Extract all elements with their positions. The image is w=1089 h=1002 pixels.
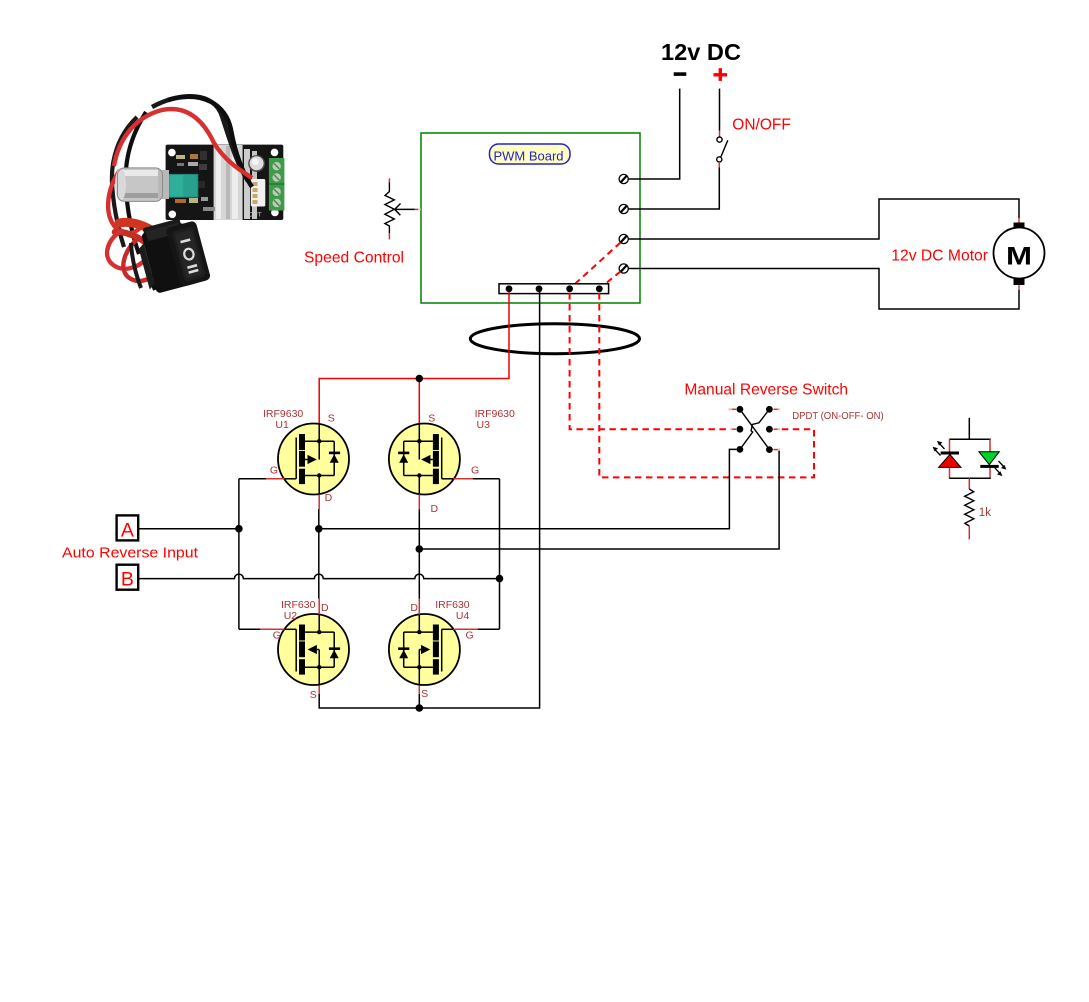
svg-text:A: A [121,519,134,541]
red dashed wire terminal3 to connector pin3 [571,243,621,289]
svg-text:S: S [310,689,317,701]
svg-text:U1: U1 [275,419,289,431]
SMD components on PCB [175,151,262,219]
svg-text:12v DC: 12v DC [661,39,741,65]
connector strip on PWM board [499,284,609,294]
transistor U1 IRF9630 [266,424,349,510]
svg-text:M: M [1006,243,1032,271]
rocker switch [134,214,211,295]
transistor U4 IRF630 [389,599,479,686]
labels U3 [428,408,515,515]
svg-text:ON/OFF: ON/OFF [732,117,791,134]
white 4-pin connector [251,179,265,207]
svg-text:Manual Reverse Switch: Manual Reverse Switch [684,381,848,398]
terminal circle 2 [619,204,628,213]
svg-text:D: D [410,602,418,614]
black hookup wires over board [112,96,252,254]
labels U1 [263,408,335,504]
svg-text:U4: U4 [456,610,470,622]
svg-text:D: D [431,503,439,515]
svg-text:DPDT (ON-OFF- ON): DPDT (ON-OFF- ON) [792,411,884,422]
LED D2 green [979,452,1007,476]
svg-text:G: G [273,630,281,642]
electrolytic capacitor [248,155,265,172]
red dashed net connector pin3 to reverse switch middle-left [570,293,730,429]
svg-text:S: S [328,412,335,424]
PWM Board label badge [490,144,571,164]
red heatshrink sleeve [115,222,166,252]
svg-text:U2: U2 [284,610,298,622]
svg-text:Auto Reverse Input: Auto Reverse Input [62,544,199,561]
node B input box [117,565,139,591]
svg-text:12v DC Motor: 12v DC Motor [891,247,988,264]
transistor U2 IRF630 [260,599,349,686]
black net from connector pin2 to source line [319,292,539,712]
svg-text:1k: 1k [979,507,991,519]
svg-text:B: B [121,569,134,591]
label DPDT (ON-OFF-ON) [792,411,884,422]
svg-text:PWM Board: PWM Board [494,148,564,163]
wire terminal4 to motor bottom [628,269,1019,310]
plus symbol [714,68,728,81]
terminal circle 3 [619,234,628,243]
label Manual Reverse Switch [684,381,848,398]
svg-text:G: G [270,465,278,477]
potentiometer speed control [385,178,421,239]
H-bridge output node 2 wire to reverse switch bottom-right [416,450,780,599]
label 12v DC Motor [891,247,988,264]
svg-text:D: D [325,492,333,504]
transistor U3 IRF9630 [389,424,474,510]
cable bundle ellipse [470,324,639,354]
PCB board [166,145,284,220]
labels U4 [410,599,473,700]
wire switch to terminal2 [628,162,719,209]
svg-text:Speed Control: Speed Control [304,249,404,266]
svg-text:U3: U3 [477,419,491,431]
wire node B with hops [138,479,503,630]
node A input box [117,515,139,541]
svg-text:G: G [471,465,479,477]
svg-text:S: S [421,688,428,700]
label 12v DC [661,39,741,65]
svg-text:S: S [428,412,435,424]
label Speed Control [304,249,404,266]
manual reverse switch DPDT [729,406,781,453]
resistor R1 1k [965,478,974,539]
labels U2 [273,599,329,701]
potentiometer body teal [169,174,198,197]
red wire loops bottom left [107,230,184,281]
wire node A [138,479,266,630]
label 1k [979,507,991,519]
red V+ net from connector pin1 to U1.S and U3.S [319,292,509,424]
potentiometer metal shaft [115,168,169,202]
terminal circle 4 [619,264,628,273]
red dashed net connector pin4 to reverse switch middle-right [599,293,814,477]
black wires bottom left [131,243,155,290]
LED D1 red [933,441,961,468]
svg-text:G: G [466,630,474,642]
red hookup wire over board [108,109,252,233]
wire terminal1 to 12v minus [628,89,680,179]
LED indicator pair [949,418,991,479]
red dashed wire terminal4 to connector pin4 [600,272,621,289]
svg-text:OUT: OUT [248,212,262,219]
label Auto Reverse Input [62,544,199,561]
heatsink [214,145,257,220]
ON/OFF switch [717,137,728,162]
green terminal block [269,158,285,211]
wire plus to switch [719,89,721,137]
photo PWM controller module [107,96,284,295]
label ON/OFF [732,117,791,134]
svg-text:D: D [321,602,329,614]
H-bridge output node 1 wire to reverse switch bottom-left [315,449,737,598]
motor M1 [994,223,1045,286]
wire terminal3 to motor top [628,199,1019,239]
terminal circle 1 [619,174,628,183]
PWM board outline [421,133,640,303]
minus symbol [674,72,687,76]
